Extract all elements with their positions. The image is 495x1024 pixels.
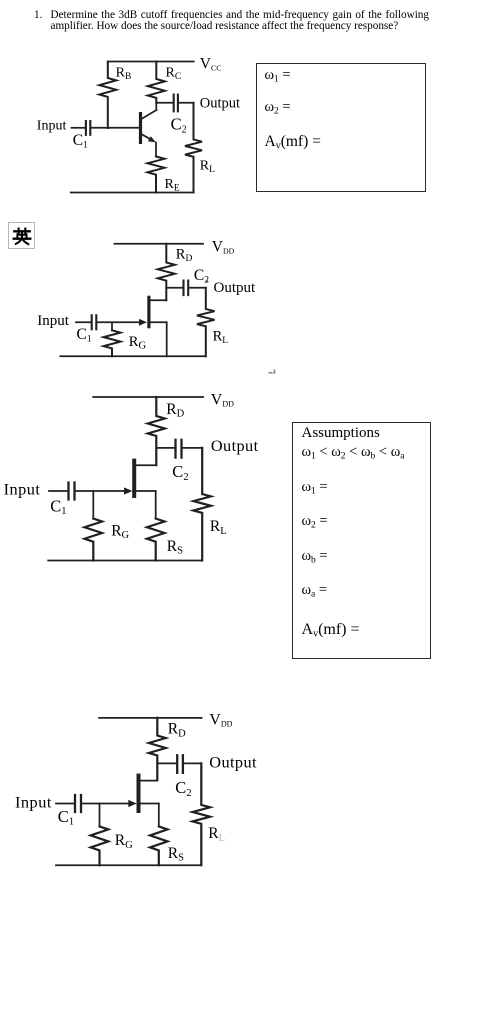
wire: output wire — [183, 447, 203, 449]
svg-text:C1: C1 — [77, 326, 92, 345]
node: gate junction — [92, 491, 94, 519]
resistor RL — [185, 103, 202, 193]
svg-text:Output: Output — [200, 95, 240, 111]
capacitor C1 — [75, 795, 81, 812]
wire: input lead — [56, 803, 74, 805]
transistor Q3 (n-JFET) — [124, 459, 156, 498]
wire: ground rail — [56, 864, 201, 866]
resistor RG — [85, 519, 103, 561]
resistor RL — [197, 288, 215, 357]
wire: gate wire — [82, 803, 130, 805]
transistor Q2 (n-JFET) — [139, 296, 167, 329]
svg-text:RD: RD — [176, 246, 193, 264]
node: gate junction — [111, 322, 113, 330]
capacitor C1 — [92, 315, 97, 329]
answer box 2 (Assumptions) — [292, 422, 431, 659]
resistor RS — [147, 519, 165, 561]
svg-text:C2: C2 — [172, 462, 188, 483]
node: gate junction — [99, 804, 101, 827]
resistor RD — [158, 244, 175, 300]
transistor Q1 (NPN BJT) — [139, 110, 157, 144]
wire: base wire — [91, 127, 138, 129]
wire: gate wire — [97, 321, 140, 323]
stray scan mark — [206, 280, 275, 374]
svg-text:RS: RS — [167, 538, 183, 557]
svg-text:RL: RL — [210, 518, 227, 537]
svg-text:C1: C1 — [50, 496, 66, 517]
wire: emitter lead — [155, 143, 157, 157]
svg-text:RG: RG — [115, 832, 133, 851]
answer box 1 — [256, 63, 426, 192]
svg-text:VCC: VCC — [200, 56, 222, 73]
wire: C2 tap — [156, 447, 174, 449]
resistor RD — [149, 718, 166, 780]
svg-text:RD: RD — [168, 721, 186, 740]
capacitor C2 — [174, 95, 178, 112]
svg-text:RG: RG — [111, 522, 129, 541]
wire: C2 tap — [166, 287, 182, 289]
wire: C2 tap — [156, 102, 172, 104]
svg-text:C2: C2 — [194, 267, 209, 286]
wire: Vdd top rail — [93, 396, 203, 398]
capacitor C2 — [176, 440, 182, 458]
capacitor C1 — [86, 121, 90, 135]
resistor RC — [148, 62, 165, 104]
svg-text:Input: Input — [4, 479, 41, 498]
svg-text:C1: C1 — [58, 807, 74, 828]
wire: source lead — [155, 491, 157, 519]
svg-text:RL: RL — [213, 328, 229, 346]
resistor RL — [193, 448, 211, 561]
wire: gate wire — [76, 490, 126, 492]
svg-text:RD: RD — [166, 401, 184, 420]
capacitor C2 — [184, 281, 189, 296]
svg-text:RL: RL — [200, 158, 215, 175]
tag box with hand-drawn CJK glyph — [8, 222, 35, 249]
resistor RD — [148, 397, 165, 465]
svg-text:RL: RL — [208, 825, 225, 844]
capacitor C2 — [177, 755, 183, 773]
problem statement title — [34, 10, 429, 33]
wire: input lead — [49, 490, 67, 492]
svg-text:Output: Output — [211, 436, 259, 455]
svg-text:Output: Output — [209, 753, 257, 772]
wire: output wire — [189, 287, 206, 289]
wire: output wire — [179, 102, 194, 104]
hand-drawn CJK glyph in tag box — [14, 229, 31, 245]
wire: source lead — [158, 804, 160, 827]
wire: Vdd top rail — [99, 717, 202, 719]
wire: collector lead — [155, 103, 157, 110]
svg-text:Input: Input — [15, 793, 52, 812]
svg-text:Output: Output — [214, 280, 257, 296]
resistor RG — [104, 330, 121, 356]
wire: Vcc top rail — [108, 61, 194, 63]
wire: ground rail — [48, 560, 202, 562]
wire: ground rail — [60, 355, 206, 357]
svg-text:RC: RC — [166, 65, 182, 82]
svg-text:RS: RS — [168, 845, 184, 864]
svg-text:C2: C2 — [171, 115, 187, 136]
svg-text:VDD: VDD — [211, 392, 234, 409]
wire: ground rail — [71, 192, 194, 194]
resistor RS — [150, 826, 168, 865]
transistor Q4 (n-JFET) — [128, 774, 159, 813]
svg-text:Input: Input — [37, 118, 67, 133]
svg-text:RB: RB — [116, 65, 132, 82]
resistor RL — [193, 763, 211, 865]
capacitor C1 — [69, 483, 75, 500]
svg-text:C2: C2 — [175, 778, 191, 799]
svg-text:RG: RG — [129, 334, 147, 352]
resistor RG — [91, 826, 109, 865]
svg-text:RE: RE — [165, 177, 180, 194]
wire: output wire — [184, 762, 201, 764]
wire: input lead — [76, 321, 91, 323]
svg-text:VDD: VDD — [209, 712, 232, 729]
wire: Vdd top rail — [115, 243, 204, 245]
svg-text:Input: Input — [37, 313, 69, 329]
wire: input lead — [72, 127, 85, 129]
resistor RB — [99, 62, 116, 129]
wire: source lead — [166, 322, 168, 356]
resistor RE — [148, 157, 165, 193]
wire: C2 tap — [157, 762, 176, 764]
svg-text:VDD: VDD — [212, 238, 235, 255]
